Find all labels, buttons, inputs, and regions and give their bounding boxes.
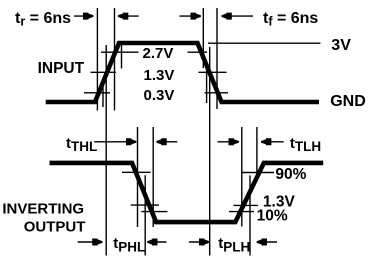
node tf start reference line <box>202 8 204 68</box>
svg-text:tPHL: tPHL <box>113 235 145 255</box>
node 90% tick on output rising edge <box>242 172 274 174</box>
node output 10% rising reference line <box>241 127 243 227</box>
wire tPLH arrow left <box>257 241 277 243</box>
svg-text:tf = 6ns: tf = 6ns <box>263 10 318 29</box>
svg-text:1.3V: 1.3V <box>144 67 175 84</box>
svg-text:INVERTING: INVERTING <box>2 201 84 218</box>
wire tTHL arrow right <box>94 141 136 143</box>
svg-text:INPUT: INPUT <box>38 60 85 77</box>
wire tr arrow left <box>118 15 138 17</box>
node input rising 1.3V reference line <box>105 45 107 256</box>
svg-text:tTHL: tTHL <box>66 135 97 154</box>
wire tPLH arrow right <box>189 241 209 243</box>
wire tTLH arrow right <box>218 141 239 143</box>
node tr end reference line <box>114 8 116 111</box>
node tf end reference line <box>216 8 218 109</box>
node 10% tick on output rising edge <box>229 211 254 213</box>
svg-text:tTLH: tTLH <box>290 135 321 154</box>
node output 10% falling reference line <box>152 127 154 227</box>
node 1.3V tick on falling edge <box>199 71 227 73</box>
svg-text:GND: GND <box>330 93 366 110</box>
node 0.3V tick on rising edge <box>84 92 110 94</box>
wire tf arrow left <box>222 15 253 17</box>
svg-text:tPLH: tPLH <box>218 235 250 255</box>
node 2.7V tick on falling edge <box>188 51 208 53</box>
wire tTLH arrow left <box>261 141 283 143</box>
wire tf arrow right <box>180 15 201 17</box>
svg-text:3V: 3V <box>331 37 351 54</box>
wire input waveform <box>46 43 319 102</box>
wire tPHL arrow left <box>148 241 167 243</box>
node 1.3V tick on output rising edge <box>234 204 259 206</box>
node output falling 1.3V reference line <box>144 175 146 255</box>
wire tr arrow right <box>74 15 93 17</box>
wire 3V level leader line <box>208 42 320 44</box>
node vertical tick right of rising edge bottom <box>102 84 104 108</box>
wire inverting output waveform <box>50 163 324 222</box>
node output 90% falling reference line <box>137 127 139 227</box>
node 10% tick on output falling edge <box>141 211 167 213</box>
svg-text:OUTPUT: OUTPUT <box>24 218 86 235</box>
node input falling 1.3V reference line <box>209 47 211 256</box>
svg-text:10%: 10% <box>257 207 288 224</box>
node output rising 1.3V reference line <box>249 175 251 255</box>
node 0.3V tick on falling edge <box>205 92 229 94</box>
node 90% tick on output falling edge <box>122 171 151 173</box>
svg-text:2.7V: 2.7V <box>143 45 174 62</box>
node 1.3V tick on output falling edge <box>131 204 159 206</box>
node 2.7V tick on rising edge <box>101 51 139 53</box>
svg-text:90%: 90% <box>275 166 306 183</box>
node vertical tick right of rising edge top <box>121 44 123 69</box>
svg-text:tr = 6ns: tr = 6ns <box>15 10 71 29</box>
node tr start reference line <box>96 8 98 111</box>
wire tTHL arrow left <box>157 141 178 143</box>
wire tPHL arrow right <box>78 241 103 243</box>
svg-text:0.3V: 0.3V <box>144 87 175 104</box>
node output 90% rising reference line <box>256 127 258 175</box>
node vertical tick left of falling edge bottom <box>206 69 208 104</box>
node 1.3V tick on rising edge <box>91 71 117 73</box>
